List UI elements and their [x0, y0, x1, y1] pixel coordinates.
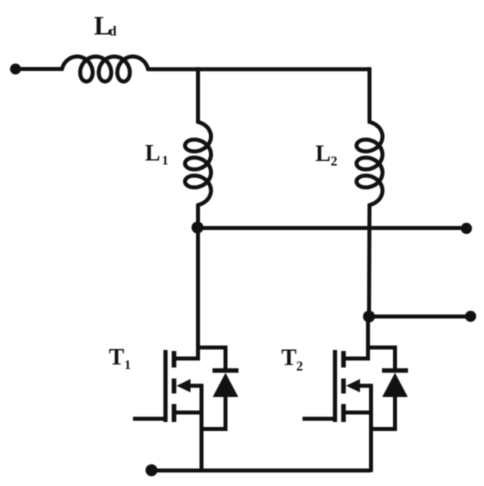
T1 diode anode lead — [202, 395, 226, 429]
label T1 — [109, 344, 131, 372]
inductor Ld — [62, 57, 148, 82]
T2 diode cathode bar — [382, 368, 408, 373]
label Ld — [94, 11, 117, 40]
svg-text:2: 2 — [296, 359, 303, 374]
T1 drain lead — [174, 357, 200, 361]
transistor T2 (MOSFET with body diode) — [303, 348, 409, 473]
wire node A to T1 drain — [196, 228, 200, 361]
wire input to Ld — [16, 67, 64, 71]
T2 body arrow line — [352, 384, 374, 388]
T2 body/source vertical — [369, 386, 373, 472]
wire top rail Ld to L2 corner — [147, 67, 370, 71]
T1 gate bar — [163, 350, 167, 422]
node output terminal 2 (right lower) — [465, 311, 476, 322]
label L2 — [315, 141, 337, 169]
svg-text:T: T — [281, 345, 296, 370]
T1 channel bar body segment — [172, 379, 177, 394]
wire output 1 rail — [198, 226, 467, 230]
T2 diode anode lead — [371, 395, 395, 429]
junction node B (L2 / T2 / output 2) — [363, 311, 375, 323]
T2 channel bar source segment — [341, 404, 346, 422]
T1 source lead — [174, 411, 202, 415]
T2 gate lead — [303, 417, 337, 421]
inductor L1 — [185, 122, 211, 205]
T2 diode triangle — [382, 373, 408, 397]
svg-text:1: 1 — [124, 357, 130, 372]
svg-text:2: 2 — [331, 154, 338, 169]
wire L2 bottom to node B (crosses output 1 rail) — [367, 204, 372, 318]
svg-text:L: L — [315, 141, 330, 166]
T2 gate bar — [333, 350, 337, 422]
wire bottom rail — [152, 469, 372, 473]
T1 gate lead — [133, 417, 167, 421]
wire output 2 rail — [369, 315, 471, 319]
wire T2 drain from node B — [366, 317, 370, 361]
T1 channel bar source segment — [172, 404, 177, 422]
label T2 — [281, 345, 303, 374]
T2 source lead — [344, 411, 372, 415]
wire L2 top drop — [368, 67, 372, 123]
svg-text:T: T — [109, 344, 124, 369]
T2 channel bar drain segment — [341, 351, 346, 368]
T1 body arrowhead — [177, 379, 191, 392]
T2 drain lead — [344, 357, 370, 361]
T1 diode top branch — [198, 348, 226, 372]
T1 diode triangle — [213, 373, 239, 397]
label L1 — [145, 140, 168, 167]
node bottom terminal — [146, 464, 158, 476]
node input terminal (left) — [10, 64, 21, 75]
T2 body arrowhead — [346, 379, 360, 392]
wire L1 top drop — [196, 67, 200, 123]
T2 diode top branch — [368, 348, 396, 372]
svg-text:L: L — [145, 140, 160, 165]
T1 channel bar drain segment — [172, 351, 177, 368]
node output terminal 1 (right upper) — [461, 223, 472, 234]
T1 body arrow line — [182, 384, 204, 388]
T2 channel bar body segment — [341, 379, 346, 394]
svg-text:d: d — [109, 24, 117, 39]
T1 body/source vertical — [200, 386, 204, 472]
junction node A (L1 / T1 / output 1) — [192, 222, 204, 234]
wire L1 bottom to node A — [196, 204, 200, 229]
transistor T1 (MOSFET with body diode) — [133, 348, 239, 473]
svg-text:1: 1 — [162, 153, 169, 168]
inductor L2 — [357, 122, 383, 205]
T1 diode cathode bar — [213, 368, 239, 373]
